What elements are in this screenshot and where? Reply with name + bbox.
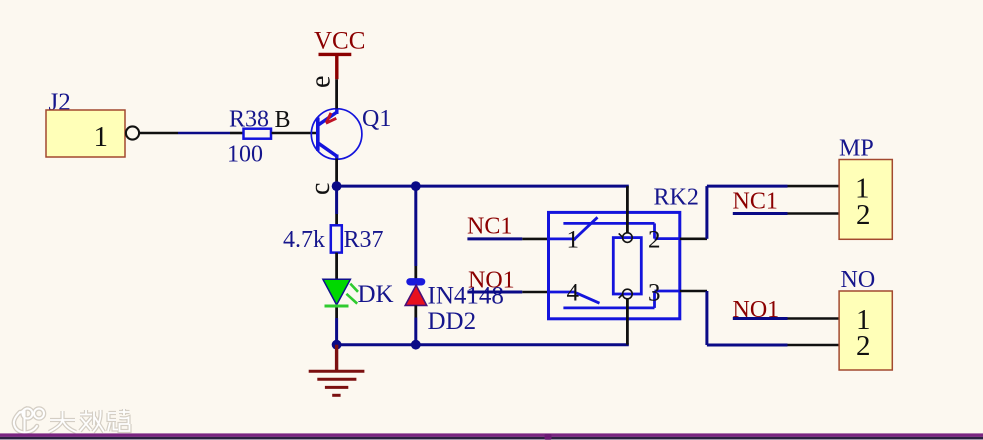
junction dot at diode branch (top)	[411, 181, 421, 191]
transistor Q1	[311, 106, 391, 159]
relay contact 1 (NC)	[549, 217, 680, 240]
resistor R37	[283, 225, 384, 253]
svg-text:VCC: VCC	[314, 28, 365, 55]
svg-text:4: 4	[567, 280, 580, 307]
svg-text:R37: R37	[344, 227, 384, 253]
node c junction dot	[332, 181, 342, 191]
svg-text:DK: DK	[358, 281, 394, 308]
wire LED to ground node	[335, 308, 338, 345]
svg-text:RK2: RK2	[654, 185, 699, 211]
svg-text:2: 2	[856, 330, 871, 362]
wire bottom horizontal run (ground net)	[337, 343, 629, 346]
svg-text:B: B	[275, 107, 291, 133]
wire coil top (from collector run)	[626, 186, 629, 233]
wire J2 pin to R38	[139, 132, 243, 135]
relay coil	[613, 233, 641, 299]
wire NC1 to MP pin 2	[733, 212, 839, 215]
bottom bar	[0, 433, 983, 437]
wire relay pin 3 to NO pin 2	[680, 291, 839, 345]
junction dot diode bottom	[411, 340, 421, 350]
svg-text:MP: MP	[839, 136, 874, 162]
emitter arrow (red)	[326, 113, 336, 123]
svg-text:100: 100	[227, 142, 263, 168]
resistor R38	[227, 107, 271, 168]
svg-text:NC1: NC1	[467, 214, 512, 240]
ground	[309, 345, 365, 396]
wire diode DD2 to bottom node	[414, 305, 417, 344]
wire node to R37	[335, 186, 338, 225]
svg-text:NO: NO	[841, 267, 876, 293]
wire R38 to Q1 base	[272, 132, 317, 135]
relay RK2	[549, 185, 699, 319]
wire Q1 collector stub	[335, 155, 338, 160]
svg-text:1: 1	[94, 121, 109, 153]
connector J2	[46, 89, 139, 157]
svg-text:3: 3	[648, 280, 661, 307]
diode DD2 1N4148	[405, 278, 504, 335]
svg-text:2: 2	[648, 227, 661, 254]
wire VCC to Q1 emitter	[335, 79, 338, 109]
wire collector node horizontal run	[337, 185, 629, 188]
svg-text:e: e	[306, 76, 337, 88]
wire NO1 to NO pin 1	[733, 317, 839, 320]
svg-text:2: 2	[856, 199, 871, 231]
wire node to diode DD2 (top)	[414, 186, 417, 278]
svg-text:4.7k: 4.7k	[283, 227, 325, 253]
wire NC1 to relay pin 1	[467, 237, 548, 240]
wire coil bottom (to ground run)	[626, 299, 629, 345]
svg-text:NC1: NC1	[733, 189, 778, 215]
power VCC	[314, 28, 365, 80]
watermark text	[49, 409, 130, 432]
watermark logo	[14, 409, 44, 433]
connector NO	[839, 267, 892, 370]
svg-text:NO1: NO1	[468, 267, 515, 293]
svg-text:1: 1	[567, 227, 580, 254]
wire NO1 to relay pin 4	[467, 291, 548, 294]
connector MP	[839, 136, 892, 240]
svg-text:c: c	[305, 183, 336, 195]
svg-text:DD2: DD2	[428, 308, 477, 335]
wire relay pin 2 to MP pin 1	[680, 186, 839, 239]
LED DK	[323, 279, 394, 308]
wire R37 to LED DK	[335, 253, 338, 280]
junction dot ground node	[332, 340, 342, 350]
svg-text:Q1: Q1	[362, 106, 391, 132]
relay contact 4 (NO)	[549, 291, 680, 308]
